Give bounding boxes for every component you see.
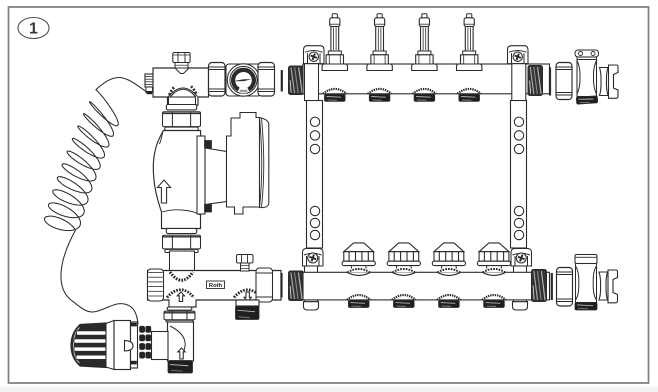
- thermostat knob: [71, 323, 106, 368]
- capillary spiral coil: [45, 90, 119, 231]
- tee left nut: [148, 269, 164, 301]
- supply pipe stub (hatched): [289, 66, 304, 95]
- left bracket bottom clamp: [303, 249, 324, 311]
- tee left port arrow: [177, 292, 184, 302]
- right bracket top clamp: [508, 46, 529, 101]
- union nut U1: [209, 63, 226, 97]
- flow meter 3: [412, 14, 437, 71]
- tee fill valve: [237, 255, 254, 272]
- thermometer outer ring: [227, 64, 259, 96]
- flow meter 1: [322, 14, 347, 71]
- pump adapter cone: [205, 148, 227, 205]
- air vent cap: [173, 53, 190, 69]
- return pipe stub (hatched): [289, 271, 304, 301]
- thermo valve inner curve: [170, 326, 185, 358]
- pump volute: [153, 131, 203, 229]
- top manifold outlet 3: [413, 89, 437, 101]
- right bracket rail: [511, 101, 527, 249]
- bottom manifold outlet 3: [437, 295, 461, 307]
- pump motor seam: [260, 118, 264, 208]
- end valve A body: [577, 57, 597, 97]
- pump flange tab top: [205, 141, 212, 149]
- mixing valve left stub: [145, 74, 154, 94]
- svg-text:1: 1: [29, 21, 38, 38]
- thermometer inner ring: [230, 66, 257, 93]
- mixing valve bottom arch: [169, 86, 198, 96]
- end valve A union nut: [556, 63, 572, 100]
- tee left port arch: [167, 290, 194, 298]
- thermometer scale arc: [233, 70, 254, 90]
- end valve A cone: [600, 68, 609, 96]
- thermo valve union: [164, 307, 195, 322]
- pump volute inner line2: [160, 131, 164, 145]
- tee down port collar: [236, 300, 259, 306]
- thermostat tab: [125, 341, 134, 351]
- union nut U2: [258, 63, 275, 97]
- gap line top-right: [549, 68, 551, 96]
- pump motor body: [227, 113, 260, 215]
- thermo valve arrow: [178, 348, 185, 359]
- pump flange tab bottom: [205, 205, 212, 213]
- top manifold outlet 4: [457, 89, 481, 101]
- left bracket top clamp: [304, 46, 325, 101]
- thermostat collar2: [131, 322, 138, 368]
- gauge body: [226, 64, 261, 96]
- end valve B spool: [608, 270, 618, 303]
- bottom manifold right stub (hatched): [532, 270, 547, 302]
- tee body: [148, 271, 282, 308]
- figure label 1 (ellipse): [18, 18, 49, 39]
- tee down port thread (dark): [236, 306, 260, 320]
- bottom manifold bar: [303, 272, 550, 300]
- end valve A spool: [609, 65, 619, 98]
- flow meter 2: [367, 14, 392, 71]
- thermostat skirt: [114, 321, 131, 370]
- top manifold outlet 2: [368, 89, 392, 101]
- bottom manifold outlet 2: [392, 295, 416, 307]
- end valve B union nut: [557, 268, 573, 307]
- bottom manifold outlet 1: [347, 295, 371, 307]
- top manifold right stub (hatched): [528, 66, 543, 96]
- thermo valve tail (dark): [168, 361, 193, 374]
- right bracket bottom clamp: [511, 249, 532, 311]
- top manifold bar: [303, 64, 550, 94]
- lock ring (ribbed): [140, 326, 151, 358]
- mixing valve top notch: [175, 68, 189, 74]
- valve cap 3: [432, 243, 465, 276]
- end valve B body: [576, 264, 597, 303]
- pump flow arrow: [157, 180, 170, 203]
- top manifold outlet 1: [323, 89, 347, 101]
- mixing valve body: [153, 68, 209, 105]
- pipe valve-to-pump: [169, 97, 196, 106]
- end valve B dark base: [575, 303, 597, 311]
- Roth label: [207, 281, 225, 289]
- end valve A dark base: [576, 96, 597, 104]
- gap line top-left: [281, 70, 283, 92]
- pump flange plate: [197, 136, 205, 214]
- left bracket rail: [307, 101, 323, 249]
- capillary inlet from valve: [96, 78, 148, 93]
- bottom manifold outlet 4: [482, 295, 506, 307]
- thermometer logo: [240, 90, 247, 94]
- valve cap 4: [477, 243, 510, 276]
- tee right union: [256, 268, 273, 302]
- tee right port arch: [234, 290, 261, 298]
- pump volute inner line: [162, 210, 201, 215]
- thermostat collar1: [106, 321, 114, 370]
- tee waist hatched dip: [170, 272, 193, 280]
- end valve B cone: [599, 272, 608, 300]
- gap line bottom-right: [551, 273, 553, 300]
- tee vertical pipe: [170, 251, 195, 271]
- bottom margin strip: [0, 387, 658, 392]
- valve cap 1: [342, 243, 375, 276]
- flow meter 4: [457, 14, 482, 71]
- thermometer needle: [233, 79, 252, 81]
- end valve B cap: [575, 255, 597, 264]
- pump motor end cap: [260, 118, 269, 208]
- end valve A handle: [575, 50, 599, 57]
- tee right port arrow: [244, 292, 251, 302]
- valve cap 2: [387, 243, 420, 276]
- capillary tail to thermostat head: [61, 230, 138, 324]
- gap line bottom-left: [280, 273, 282, 298]
- pump top union: [163, 105, 201, 131]
- thermo valve body: [168, 322, 194, 361]
- svg-text:Roth: Roth: [209, 283, 223, 289]
- valve connection block: [152, 332, 169, 360]
- pump bottom union: [163, 229, 201, 253]
